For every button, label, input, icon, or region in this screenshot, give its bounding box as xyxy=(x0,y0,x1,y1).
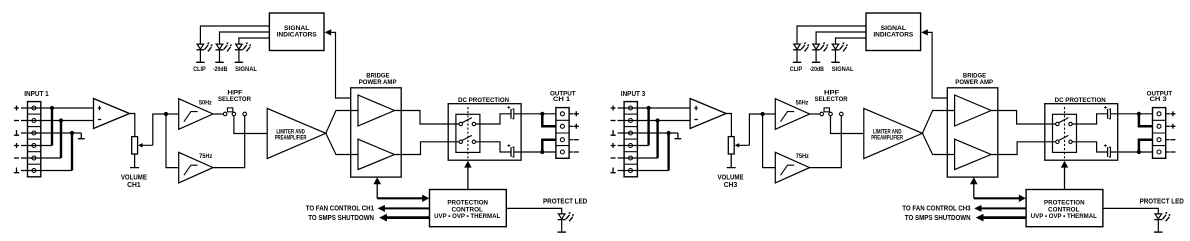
input INPUT 3 pin 4 sign + xyxy=(611,143,616,148)
node strap + pins 1-4 xyxy=(647,106,651,146)
wire input pin 6 xyxy=(618,170,669,172)
wire capacitor top to output xyxy=(1111,113,1153,115)
wire pot wiper to filters xyxy=(749,114,762,145)
svg-text:50Hz: 50Hz xyxy=(796,99,809,106)
output pin sign - xyxy=(1170,151,1175,153)
ground xyxy=(78,133,85,139)
svg-text:-20dB: -20dB xyxy=(809,66,824,73)
wire limiter to top amp xyxy=(922,111,954,134)
wire input pin 4 xyxy=(618,145,649,147)
svg-text:PROTECT LED: PROTECT LED xyxy=(543,198,587,205)
relay box xyxy=(456,114,480,152)
op-amp input buffer xyxy=(690,99,726,129)
svg-text:TO SMPS SHUTDOWN: TO SMPS SHUTDOWN xyxy=(308,213,374,222)
output pin sign - xyxy=(1170,139,1175,141)
LED -20dB xyxy=(812,42,829,62)
arrow TO SMPS SHUTDOWN xyxy=(976,214,1026,222)
relay contact top xyxy=(1056,118,1073,126)
wire amp sense to protection control xyxy=(970,177,1026,202)
output terminal block CH 1 xyxy=(556,108,573,159)
LED CLIP xyxy=(793,42,810,62)
wire to 75Hz filter xyxy=(166,114,179,168)
node filter input xyxy=(164,112,168,116)
node strap - pins 2-5 xyxy=(656,118,660,158)
wire protection control to relay xyxy=(464,161,471,190)
svg-text:PROTECTION: PROTECTION xyxy=(447,199,488,206)
label OUTPUT CH 3 xyxy=(1147,91,1173,104)
ground pot xyxy=(130,154,139,168)
channel 3 block diagram xyxy=(611,13,1184,232)
wire relay bottom to capacitor xyxy=(1072,142,1107,152)
label HPF SELECTOR xyxy=(218,90,251,103)
svg-text:PREAMPLIFIER: PREAMPLIFIER xyxy=(871,135,903,141)
HPF selector switch xyxy=(820,108,843,116)
relay contact top xyxy=(459,118,476,126)
wire relay bottom to capacitor xyxy=(476,142,511,152)
arrow TO FAN CONTROL CH3 xyxy=(974,205,1026,212)
wire top amp to dc protection xyxy=(395,111,460,125)
input INPUT 3 pin 2 sign - xyxy=(611,120,616,122)
wire CLIP LED to indicators xyxy=(200,26,269,44)
wire input pin 2 xyxy=(21,120,94,122)
label SIGNAL INDICATORS xyxy=(277,25,317,39)
wire selector pole to limiter xyxy=(234,116,267,134)
ground xyxy=(675,133,682,139)
label VOLUME CH3 xyxy=(717,175,743,190)
svg-text:PREAMPLIFIER: PREAMPLIFIER xyxy=(275,135,307,141)
arrow TO SMPS SHUTDOWN xyxy=(379,214,429,222)
svg-text:TO FAN CONTROL CH1: TO FAN CONTROL CH1 xyxy=(306,204,374,213)
capacitor output top xyxy=(507,106,513,119)
input terminal block INPUT 1 xyxy=(28,102,41,177)
node strap + pins 1-4 xyxy=(50,106,54,146)
label SIGNAL INDICATORS xyxy=(873,25,913,39)
svg-text:CH3: CH3 xyxy=(724,182,738,189)
filter 50Hz xyxy=(179,99,213,130)
input INPUT 1 pin 3 sign gnd xyxy=(14,130,19,135)
filter 75Hz xyxy=(775,152,809,183)
svg-text:INPUT 3: INPUT 3 xyxy=(621,89,646,98)
wire input pin 3 xyxy=(21,132,81,134)
svg-text:75Hz: 75Hz xyxy=(796,153,810,160)
input terminal block INPUT 3 xyxy=(624,102,637,177)
input INPUT 1 pin 4 sign + xyxy=(14,143,19,148)
wire limiter to bottom amp xyxy=(326,133,358,154)
amp top xyxy=(358,95,395,126)
svg-text:SELECTOR: SELECTOR xyxy=(218,96,251,103)
wire 75Hz to selector xyxy=(810,116,842,168)
output pin sign - xyxy=(574,151,579,153)
protection control box xyxy=(430,190,507,227)
bridge power amp box xyxy=(947,88,998,177)
label HPF SELECTOR xyxy=(815,90,848,103)
svg-text:SELECTOR: SELECTOR xyxy=(815,96,848,103)
wire input pin 6 xyxy=(21,170,72,172)
wire relay top to capacitor xyxy=(1072,114,1107,124)
capacitor output bottom xyxy=(1104,144,1110,157)
wire input pin 2 xyxy=(618,120,691,122)
svg-text:TO FAN CONTROL CH3: TO FAN CONTROL CH3 xyxy=(902,204,970,213)
wire limiter to top amp xyxy=(326,111,358,134)
svg-text:UVP • OVP • THERMAL: UVP • OVP • THERMAL xyxy=(1031,213,1097,220)
ground pot xyxy=(727,154,736,168)
relay contact bottom xyxy=(1056,135,1073,143)
label PROTECTION CONTROL UVP OVP THERMAL xyxy=(434,199,500,220)
label BRIDGE POWER AMP xyxy=(955,73,993,86)
terminal circles xyxy=(629,106,633,173)
wire capacitor bottom to output xyxy=(1111,151,1153,153)
wire bottom amp to dc protection xyxy=(395,142,460,155)
wire input pin 5 xyxy=(21,157,61,159)
wire relay top to capacitor xyxy=(476,114,511,124)
svg-text:75Hz: 75Hz xyxy=(199,153,213,160)
wire amp to signal indicators xyxy=(325,29,351,98)
channel 1 block diagram xyxy=(14,13,587,232)
label VOLUME CH1 xyxy=(121,175,147,190)
svg-text:INPUT 1: INPUT 1 xyxy=(24,89,49,98)
svg-text:PROTECT LED: PROTECT LED xyxy=(1140,198,1184,205)
limiter and preamplifier xyxy=(864,108,923,158)
wire to 50Hz filter xyxy=(166,113,179,115)
wire pot wiper to filters xyxy=(153,114,166,145)
svg-text:PROTECTION: PROTECTION xyxy=(1044,199,1085,206)
wire to 75Hz filter xyxy=(763,114,776,168)
input INPUT 3 pin 6 sign gnd xyxy=(611,168,616,173)
output pin sign + xyxy=(1170,111,1175,116)
node output + xyxy=(540,112,556,127)
protection control box xyxy=(1026,190,1103,227)
LED SIGNAL xyxy=(235,42,252,62)
svg-text:-20dB: -20dB xyxy=(213,66,228,73)
wire limiter to bottom amp xyxy=(922,133,954,154)
label OUTPUT CH 1 xyxy=(550,91,576,104)
capacitor output bottom xyxy=(507,144,513,157)
bridge power amp box xyxy=(351,88,402,177)
node output - xyxy=(1137,140,1153,154)
wire amp to signal indicators xyxy=(921,29,947,98)
output pin sign + xyxy=(1170,124,1175,129)
amp bottom xyxy=(955,139,992,169)
capacitor output top xyxy=(1104,106,1110,119)
input INPUT 1 pin 5 sign - xyxy=(14,157,19,159)
node output + xyxy=(1137,112,1153,127)
op-amp input buffer xyxy=(94,99,130,129)
dc protection box xyxy=(1045,104,1118,161)
wire op-amp output xyxy=(130,114,135,137)
svg-text:CLIP: CLIP xyxy=(790,66,803,73)
wire top amp to dc protection xyxy=(991,111,1056,125)
wire -20dB LED to indicators xyxy=(220,32,270,44)
terminal circles xyxy=(32,106,36,173)
limiter and preamplifier xyxy=(267,108,326,158)
svg-text:VOLUME: VOLUME xyxy=(717,175,743,182)
LED CLIP xyxy=(196,42,213,62)
input INPUT 3 pin 5 sign - xyxy=(611,157,616,159)
filter 50Hz xyxy=(775,99,809,130)
wire amp sense to protection control xyxy=(373,177,429,202)
relay actuator dashed line xyxy=(1064,107,1066,160)
svg-text:POWER AMP: POWER AMP xyxy=(359,79,397,86)
wire selector pole to limiter xyxy=(831,116,864,134)
input INPUT 3 pin 1 sign + xyxy=(611,106,616,111)
svg-text:CH1: CH1 xyxy=(127,182,141,189)
wire input pin 5 xyxy=(618,157,658,159)
input INPUT 3 pin 3 sign gnd xyxy=(611,130,616,135)
node strap gnd pins 3-6 xyxy=(667,131,671,171)
wire input pin 1 xyxy=(618,107,691,109)
wire capacitor bottom to output xyxy=(514,151,556,153)
wire input pin 4 xyxy=(21,145,52,147)
wire bottom amp to dc protection xyxy=(991,142,1056,155)
svg-text:CH 1: CH 1 xyxy=(553,96,571,103)
amp bottom xyxy=(358,139,395,169)
svg-text:INDICATORS: INDICATORS xyxy=(873,32,913,39)
wire CLIP LED to indicators xyxy=(797,26,866,44)
output terminal block CH 3 xyxy=(1153,108,1170,159)
wire protection control to relay xyxy=(1061,161,1068,190)
output pin sign + xyxy=(574,111,579,116)
signal indicators box xyxy=(866,13,921,51)
svg-text:CH 3: CH 3 xyxy=(1149,96,1167,103)
svg-text:DC PROTECTION: DC PROTECTION xyxy=(458,97,509,104)
wire 50Hz to selector xyxy=(810,113,820,115)
output pin sign + xyxy=(574,124,579,129)
LED PROTECT xyxy=(1154,212,1171,232)
filter 75Hz xyxy=(179,152,213,183)
label BRIDGE POWER AMP xyxy=(359,73,397,86)
node strap - pins 2-5 xyxy=(59,118,63,158)
LED PROTECT xyxy=(558,212,575,232)
wire 75Hz to selector xyxy=(213,116,245,168)
LED -20dB xyxy=(215,42,232,62)
amp top xyxy=(955,95,992,126)
relay box xyxy=(1053,114,1077,152)
node strap gnd pins 3-6 xyxy=(70,131,74,171)
svg-text:50Hz: 50Hz xyxy=(199,99,212,106)
volume potentiometer CH3 xyxy=(728,137,749,154)
input INPUT 1 pin 2 sign - xyxy=(14,120,19,122)
wire capacitor top to output xyxy=(514,113,556,115)
HPF selector switch xyxy=(223,108,246,116)
relay contact bottom xyxy=(459,135,476,143)
wire SIGNAL LED to indicators xyxy=(239,38,270,44)
relay actuator dashed line xyxy=(467,107,469,160)
node filter input xyxy=(761,112,765,116)
dc protection box xyxy=(448,104,521,161)
svg-text:POWER AMP: POWER AMP xyxy=(955,79,993,86)
svg-text:SIGNAL: SIGNAL xyxy=(235,66,257,73)
svg-text:INDICATORS: INDICATORS xyxy=(277,32,317,39)
LED SIGNAL xyxy=(831,42,848,62)
svg-text:UVP • OVP • THERMAL: UVP • OVP • THERMAL xyxy=(434,213,500,220)
wire input pin 3 xyxy=(618,132,678,134)
node output - xyxy=(540,140,556,154)
svg-text:DC PROTECTION: DC PROTECTION xyxy=(1055,97,1106,104)
wire to 50Hz filter xyxy=(763,113,776,115)
signal indicators box xyxy=(269,13,324,51)
svg-text:SIGNAL: SIGNAL xyxy=(832,66,854,73)
svg-text:TO SMPS SHUTDOWN: TO SMPS SHUTDOWN xyxy=(905,213,971,222)
wire 50Hz to selector xyxy=(213,113,223,115)
output pin sign - xyxy=(574,139,579,141)
svg-text:CLIP: CLIP xyxy=(193,66,206,73)
input INPUT 1 pin 6 sign gnd xyxy=(14,168,19,173)
wire op-amp output xyxy=(726,114,731,137)
input INPUT 1 pin 1 sign + xyxy=(14,106,19,111)
label PROTECTION CONTROL UVP OVP THERMAL xyxy=(1031,199,1097,220)
volume potentiometer CH1 xyxy=(132,137,153,154)
wire -20dB LED to indicators xyxy=(816,32,866,44)
wire input pin 1 xyxy=(21,107,94,109)
arrow TO FAN CONTROL CH1 xyxy=(378,205,430,212)
wire protection control to protect LED xyxy=(506,208,561,214)
svg-text:VOLUME: VOLUME xyxy=(121,175,147,182)
wire SIGNAL LED to indicators xyxy=(836,38,867,44)
wire protection control to protect LED xyxy=(1103,208,1158,214)
